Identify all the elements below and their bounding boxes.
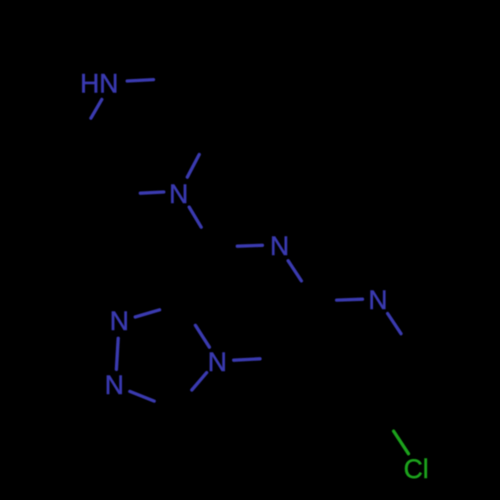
svg-text:HN: HN (80, 69, 118, 99)
svg-text:N: N (110, 306, 129, 336)
svg-text:Cl: Cl (404, 454, 429, 484)
svg-text:N: N (105, 370, 124, 400)
svg-text:N: N (368, 285, 387, 315)
svg-text:N: N (208, 347, 227, 377)
svg-text:N: N (169, 179, 188, 209)
svg-text:N: N (270, 231, 289, 261)
